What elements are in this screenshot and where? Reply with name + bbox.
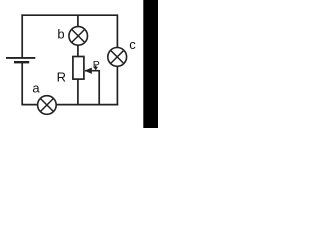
lamp c [108, 48, 127, 67]
wire from top to lamp b [77, 15, 79, 27]
battery short plate (negative) [14, 61, 29, 63]
svg-text:b: b [57, 27, 64, 42]
wire top to lamp c [116, 14, 118, 47]
battery long plate (positive) [6, 57, 35, 59]
wiper vertical wire down [98, 70, 100, 105]
wiper arm horizontal wire [85, 70, 99, 72]
lamp a (on bottom wire) [38, 96, 57, 115]
lamp b [69, 27, 88, 46]
wire resistor to bottom [77, 79, 79, 105]
wire lamp b to resistor [77, 45, 79, 57]
svg-text:c: c [129, 37, 136, 52]
svg-text:a: a [32, 81, 40, 96]
wiper arrowhead pointing left at resistor [85, 68, 92, 74]
resistor R (rheostat body) [73, 57, 84, 80]
svg-text:R: R [57, 69, 66, 84]
wire left vertical upper (battery top lead) [21, 14, 23, 57]
slider P pointer arrow (down) [94, 66, 98, 71]
wire lamp c to bottom [116, 66, 118, 105]
black band at right edge [143, 0, 158, 128]
wire left vertical lower (battery bottom lead) [21, 63, 23, 105]
wire bottom horizontal [21, 104, 118, 106]
wire top horizontal [21, 14, 117, 16]
